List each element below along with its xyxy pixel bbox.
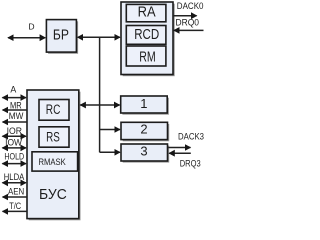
channel 2 box (121, 121, 169, 141)
svg-text:MW: MW (9, 111, 24, 121)
svg-text:RC: RC (46, 102, 61, 117)
svg-text:DRQ0: DRQ0 (176, 17, 200, 27)
wire DRQ3 (in) (169, 152, 191, 154)
svg-text:HLDA: HLDA (4, 172, 25, 182)
svg-text:БР: БР (53, 28, 69, 44)
wire БР to registers block (bidirectional) (78, 36, 120, 38)
register RC (39, 100, 69, 121)
svg-text:БУС: БУС (39, 186, 67, 203)
wire IOR (bidirectional) (2, 135, 26, 137)
wire branch to channel 3 (100, 151, 120, 153)
svg-text:DACK0: DACK0 (177, 1, 204, 11)
svg-text:1: 1 (140, 96, 147, 111)
svg-text:RM: RM (139, 49, 156, 65)
svg-text:2: 2 (140, 121, 147, 136)
svg-text:RS: RS (46, 129, 60, 144)
svg-text:AEN: AEN (8, 187, 24, 197)
register RS (39, 127, 69, 147)
svg-text:A: A (10, 84, 16, 94)
wire DACK0 (out) (174, 15, 197, 17)
svg-text:DRQ3: DRQ3 (180, 158, 201, 168)
channel 1 box (121, 96, 169, 115)
wire MR (out) (3, 109, 27, 111)
svg-text:HOLD: HOLD (4, 151, 24, 161)
register БР (buffer register) (46, 20, 78, 54)
svg-text:RA: RA (138, 5, 156, 21)
svg-text:RCD: RCD (134, 27, 159, 43)
svg-text:D: D (28, 21, 34, 31)
svg-text:RMASK: RMASK (38, 157, 66, 168)
register RM (126, 46, 166, 66)
wire БУС to channel 1 (bidirectional) (80, 104, 119, 106)
wire vertical bus (99, 37, 101, 153)
svg-text:3: 3 (140, 143, 147, 158)
wire branch to channel 2 (100, 129, 120, 131)
wire D bus (bidirectional arrow into БР) (8, 37, 45, 39)
svg-text:IOR: IOR (7, 126, 22, 136)
wire HLDA (bidirectional) (2, 182, 26, 184)
container registers RA/RCD/RM (121, 2, 175, 76)
svg-text:DACK3: DACK3 (178, 132, 204, 142)
channel 3 box (121, 143, 169, 162)
wire AEN (out) (3, 196, 27, 198)
register RMASK (32, 152, 78, 171)
svg-text:MR: MR (10, 101, 22, 111)
wire IOW (bidirectional) (2, 147, 26, 149)
wire DRQ0 (in) (174, 29, 204, 31)
register RA (126, 4, 166, 21)
wire MW (out) (3, 121, 27, 123)
svg-text:IOW: IOW (5, 138, 23, 148)
wire T/C (out) (3, 210, 27, 212)
svg-text:T/C: T/C (9, 201, 22, 211)
wire DACK3 (out) (168, 147, 190, 149)
wire A (bidirectional) (2, 97, 26, 99)
wire HOLD (bidirectional) (2, 163, 26, 165)
register RCD (126, 26, 166, 45)
controller БУС main box (27, 90, 81, 220)
